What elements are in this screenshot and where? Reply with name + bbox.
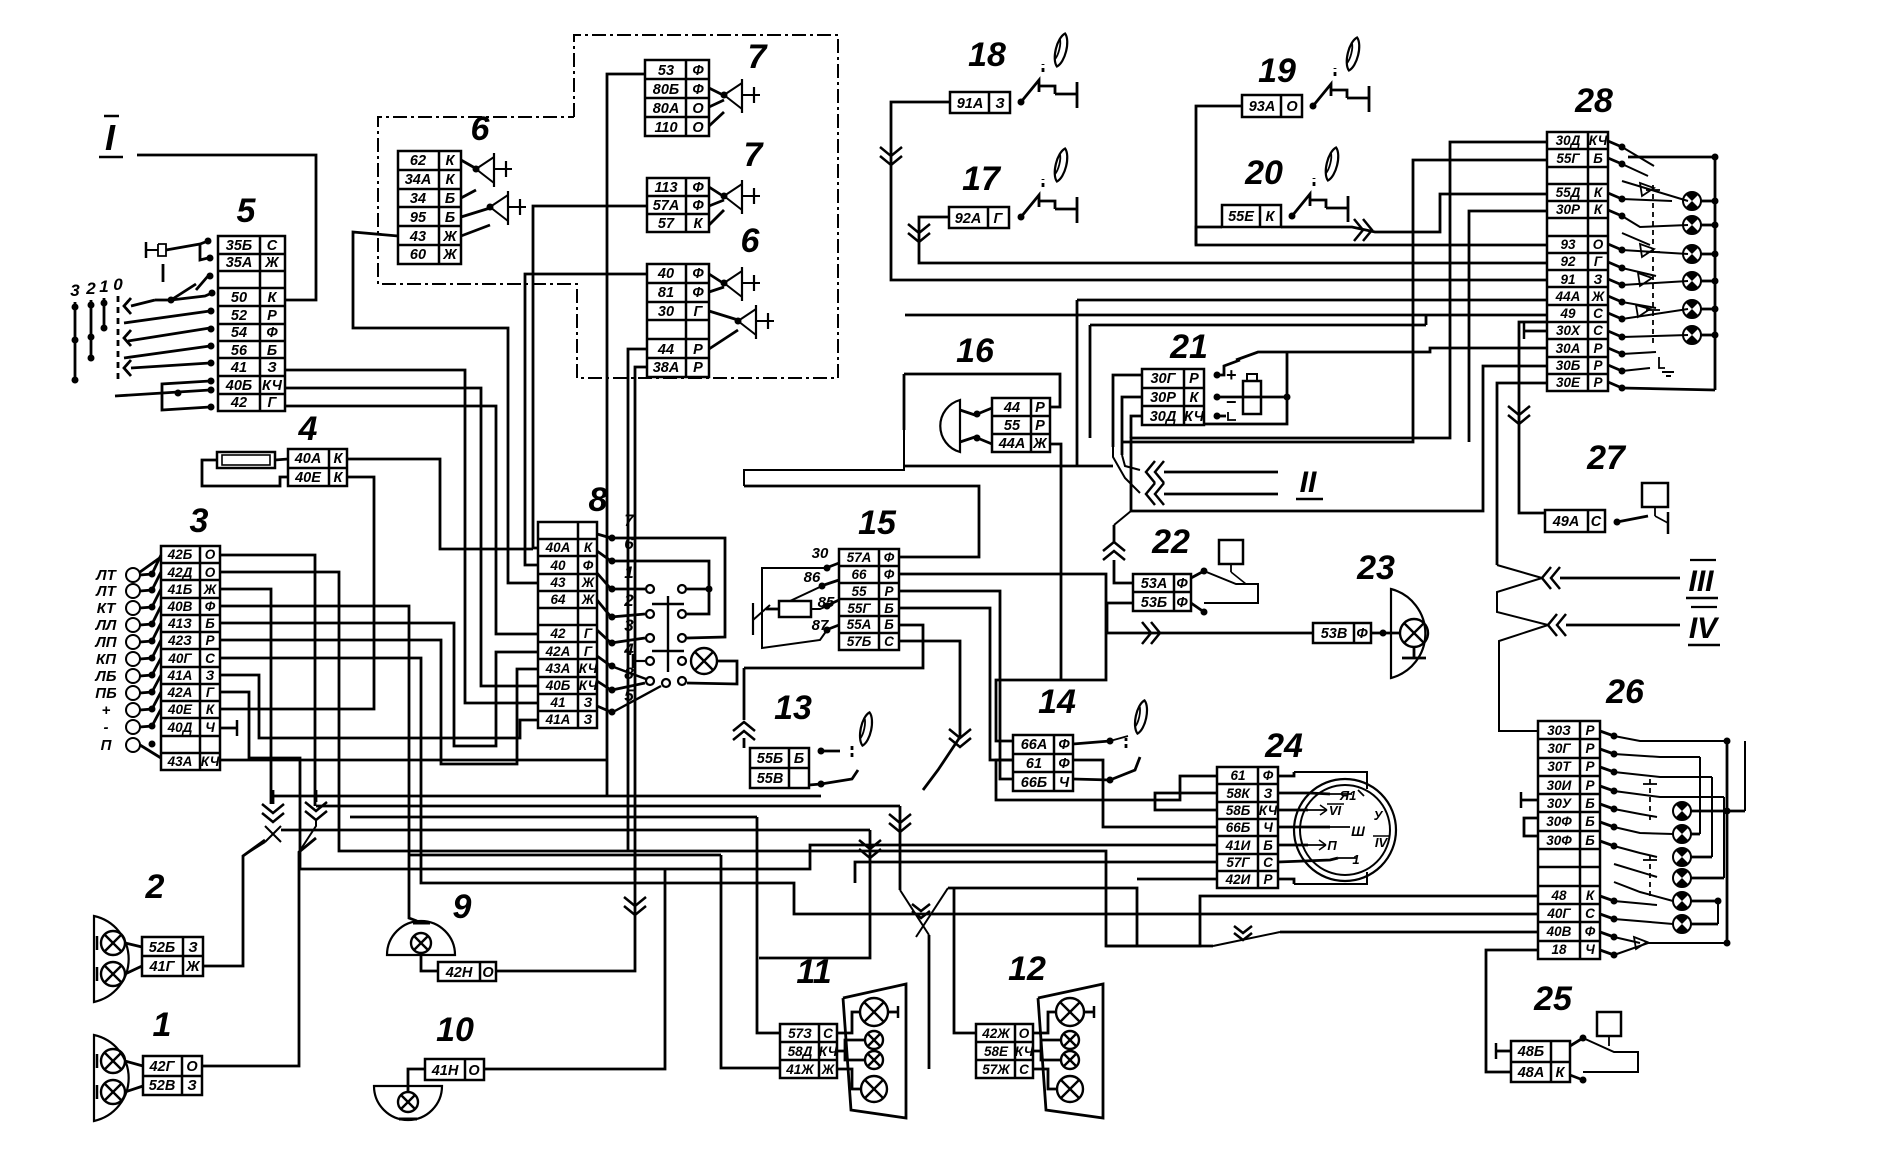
svg-text:З: З: [187, 1078, 196, 1094]
svg-text:91А: 91А: [957, 96, 984, 112]
svg-text:З: З: [584, 695, 593, 710]
svg-text:ЛТ: ЛТ: [95, 583, 117, 600]
svg-text:40А: 40А: [545, 540, 571, 555]
svg-text:86: 86: [804, 569, 821, 586]
svg-text:30: 30: [658, 304, 674, 320]
switch item 22: [1191, 540, 1258, 616]
svg-text:41: 41: [549, 695, 565, 710]
svg-text:П: П: [101, 737, 113, 754]
svg-text:К: К: [1556, 1065, 1566, 1081]
switch to rows empty/50 of block 5: [155, 273, 216, 304]
svg-text:93А: 93А: [1249, 99, 1276, 115]
svg-text:Г: Г: [584, 644, 593, 659]
wires 24 table to round connector: [1278, 772, 1294, 776]
svg-text:50: 50: [231, 290, 247, 306]
lamp cluster item 12: [1033, 984, 1103, 1118]
svg-text:Ж: Ж: [1032, 436, 1048, 452]
svg-text:+: +: [1226, 365, 1237, 385]
svg-text:КЧ: КЧ: [201, 754, 220, 769]
svg-text:57А: 57А: [653, 198, 680, 214]
svg-text:Б: Б: [445, 191, 455, 207]
block 21 outer enclosure: [1425, 315, 1428, 325]
svg-text:Ж: Ж: [203, 582, 218, 597]
wire 42Ж of block 12 left riser: [954, 888, 976, 1033]
svg-text:55Б: 55Б: [757, 751, 783, 767]
connector block 6 lower: [647, 264, 709, 377]
svg-text:Б: Б: [1585, 833, 1595, 848]
svg-text:61: 61: [1026, 756, 1042, 772]
wire 42Д of block3 long run: [220, 572, 1137, 946]
svg-text:У: У: [1374, 808, 1384, 823]
connector block 7 upper: [645, 60, 709, 136]
svg-text:56: 56: [231, 343, 248, 359]
connector block 7 lower: [647, 178, 709, 232]
svg-text:41А: 41А: [167, 668, 193, 683]
dome lamp item 10: [374, 1069, 442, 1120]
svg-text:Б: Б: [1585, 796, 1595, 811]
svg-text:30Ф: 30Ф: [1546, 814, 1572, 829]
block 8 indicator lamp: [691, 648, 717, 674]
svg-text:Б: Б: [1593, 151, 1603, 166]
svg-text:30Г: 30Г: [1150, 371, 1176, 387]
wire 18Ч of 26 down to 48А of 25: [1486, 950, 1538, 1072]
svg-text:30Д: 30Д: [1556, 133, 1581, 148]
svg-text:44: 44: [1003, 400, 1020, 416]
svg-text:110: 110: [654, 120, 677, 136]
transistors of block 7 upper: [709, 79, 760, 126]
svg-text:Ф: Ф: [692, 63, 704, 79]
svg-text:55: 55: [1004, 418, 1021, 434]
wire 53А of 22 up chevron: [1114, 560, 1133, 583]
connector block 6 (flasher relay): [398, 151, 461, 264]
svg-text:Ш: Ш: [1351, 823, 1365, 839]
wire 55Г of 15 down to 14: [899, 608, 1013, 760]
svg-text:1: 1: [99, 277, 108, 296]
svg-text:48А: 48А: [1517, 1065, 1545, 1081]
svg-text:58Б: 58Б: [1226, 803, 1251, 818]
svg-text:53В: 53В: [1321, 626, 1348, 642]
tag 53В item 23: [1313, 623, 1371, 643]
wire block5 42 to block8 row 42: [285, 406, 538, 634]
connector block 4 (fuse): [288, 449, 347, 486]
svg-text:9: 9: [453, 888, 472, 926]
switch to rows 35Б/35А of block 5: [146, 238, 214, 283]
svg-text:12: 12: [1008, 950, 1046, 988]
block 8 pin stubs and numbers: [597, 511, 635, 716]
wire 40Г of block3 run to 26 row 40Г: [220, 658, 1538, 914]
wire loop item 16 top: [904, 374, 1060, 407]
svg-text:80Б: 80Б: [653, 82, 679, 98]
wire 30Б of 28 riser: [1131, 366, 1547, 511]
svg-text:Р: Р: [267, 308, 277, 324]
connector block 22: [1133, 574, 1191, 611]
svg-text:ЛБ: ЛБ: [95, 668, 117, 685]
round connector item 24: [1294, 772, 1396, 884]
svg-text:5: 5: [237, 192, 257, 230]
svg-text:Р: Р: [1585, 723, 1595, 738]
svg-text:18: 18: [968, 36, 1006, 74]
svg-text:Б: Б: [884, 617, 894, 632]
svg-text:С: С: [1585, 906, 1595, 921]
svg-text:−: −: [1226, 392, 1237, 412]
wire 30Г of 21 left loop: [1113, 375, 1142, 447]
svg-text:40А: 40А: [294, 451, 322, 467]
wire 61 of 14 to 24: [996, 760, 1217, 800]
connector block 1 tag: [143, 1056, 202, 1095]
svg-text:IV: IV: [1375, 835, 1389, 850]
svg-text:Ф: Ф: [692, 266, 704, 282]
svg-text:II: II: [1300, 466, 1317, 499]
svg-text:55Г: 55Г: [847, 601, 871, 616]
wire 49 long run to 28: [905, 314, 1547, 317]
svg-text:ПБ: ПБ: [95, 685, 117, 702]
svg-text:40: 40: [549, 558, 566, 573]
connector block 13: [750, 748, 809, 788]
svg-text:З: З: [206, 668, 215, 683]
connector block 15 (relay): [839, 549, 899, 650]
switch item 27: [1614, 483, 1669, 534]
svg-text:41Г: 41Г: [148, 959, 175, 975]
svg-text:42Н: 42Н: [445, 965, 473, 981]
svg-text:Г: Г: [994, 211, 1004, 227]
wire 91А item18 to 91 of 28: [891, 102, 1547, 280]
battery symbol item 21: [1204, 352, 1291, 424]
svg-text:Р: Р: [205, 633, 215, 648]
svg-text:1: 1: [1352, 852, 1359, 867]
svg-text:92А: 92А: [955, 211, 982, 227]
block 26 indicator lamps: [1673, 802, 1691, 820]
svg-text:Р: Р: [1585, 741, 1595, 756]
svg-text:КЧ: КЧ: [1589, 133, 1608, 148]
svg-text:Ч: Ч: [205, 720, 215, 735]
svg-text:О: О: [1019, 1026, 1030, 1041]
svg-text:40Б: 40Б: [225, 378, 252, 394]
svg-text:24: 24: [1264, 727, 1303, 765]
svg-text:41А: 41А: [545, 712, 571, 727]
svg-text:91: 91: [1560, 272, 1575, 287]
svg-text:Г: Г: [268, 395, 278, 411]
svg-text:III: III: [1688, 565, 1714, 598]
relay 15 coil and contacts: [753, 545, 839, 648]
svg-text:34А: 34А: [405, 172, 432, 188]
svg-text:К: К: [1266, 209, 1276, 225]
svg-text:О: О: [468, 1063, 480, 1079]
switch item 17: [1018, 214, 1025, 221]
svg-text:О: О: [205, 565, 216, 580]
wire item 2 to riser: [203, 840, 265, 966]
crossover junction left: [243, 790, 284, 856]
wire 43 of 6a to block8 row 43: [353, 232, 538, 583]
svg-text:64: 64: [550, 592, 566, 607]
svg-text:23: 23: [1356, 549, 1395, 587]
wire 42А of block3: [220, 692, 300, 869]
svg-text:26: 26: [1605, 673, 1645, 711]
staircase from junctions to right: [273, 795, 821, 798]
svg-text:43А: 43А: [167, 754, 193, 769]
wire block5 41 to block8 row 41: [285, 370, 538, 703]
svg-text:44А: 44А: [1555, 289, 1581, 304]
connector block 14: [1013, 735, 1073, 791]
IV twisted junction: [1497, 600, 1680, 731]
svg-text:З: З: [267, 360, 276, 376]
svg-text:КЧ: КЧ: [1259, 803, 1278, 818]
fuse symbol item 4: [217, 452, 275, 468]
svg-text:40В: 40В: [1546, 924, 1572, 939]
svg-text:КЧ: КЧ: [1015, 1044, 1034, 1059]
block 26 contact stubs: [1600, 731, 1618, 959]
wire 44А to 28: [1077, 299, 1547, 302]
svg-text:Б: Б: [1585, 814, 1595, 829]
block 8 switch mechanism: [633, 585, 686, 687]
svg-text:Ф: Ф: [1176, 576, 1188, 592]
svg-text:Р: Р: [1593, 375, 1603, 390]
svg-text:Б: Б: [794, 751, 804, 767]
svg-text:17: 17: [962, 160, 1002, 198]
svg-text:34: 34: [410, 191, 426, 207]
wire 43А of block3 long bottom run: [220, 759, 607, 762]
II twisted-pair junction: [1113, 447, 1278, 505]
svg-text:С: С: [1593, 323, 1603, 338]
svg-text:КЧ: КЧ: [579, 661, 598, 676]
svg-text:Б: Б: [205, 616, 215, 631]
svg-text:Р: Р: [693, 342, 703, 358]
svg-text:Р: Р: [1263, 872, 1273, 887]
svg-text:52: 52: [231, 308, 247, 324]
svg-text:О: О: [692, 101, 704, 117]
fuse tag 93А item 19: [1242, 95, 1302, 117]
svg-text:КП: КП: [96, 651, 117, 668]
tag 41Н item 10: [425, 1059, 484, 1080]
wire 53Б of 22 to 53В of 23: [1107, 603, 1313, 633]
svg-text:К: К: [334, 451, 344, 467]
svg-text:К: К: [1190, 390, 1200, 406]
svg-text:30Д: 30Д: [1150, 409, 1177, 425]
svg-text:30З: 30З: [1547, 723, 1571, 738]
long horizontal into II junction: [904, 465, 1113, 468]
svg-text:Ф: Ф: [583, 558, 594, 573]
svg-text:Р: Р: [1593, 341, 1603, 356]
wire 66Б of 14 to 24: [1073, 760, 1217, 827]
svg-text:Р: Р: [884, 584, 894, 599]
svg-text:Г: Г: [206, 685, 215, 700]
svg-text:30Г: 30Г: [1547, 741, 1571, 756]
svg-text:30: 30: [812, 545, 829, 562]
block 8 switch loop wiring: [612, 538, 725, 638]
svg-text:1: 1: [153, 1006, 172, 1044]
svg-text:48: 48: [1550, 888, 1567, 903]
svg-text:IV: IV: [1689, 612, 1720, 645]
svg-text:25: 25: [1533, 980, 1573, 1018]
svg-text:Ф: Ф: [884, 567, 895, 582]
svg-text:42Д: 42Д: [167, 565, 193, 580]
svg-text:Ч: Ч: [1059, 775, 1070, 791]
connector block 8 (light switch): [538, 522, 598, 728]
switch item 13: [809, 711, 875, 787]
svg-text:40Д: 40Д: [167, 720, 193, 735]
riser to item 11 row 57З: [757, 817, 780, 1033]
svg-text:КЧ: КЧ: [819, 1044, 838, 1059]
svg-text:30Е: 30Е: [1556, 375, 1581, 390]
svg-text:30Б: 30Б: [1556, 358, 1581, 373]
wire item20 left down: [1196, 227, 1222, 245]
svg-text:16: 16: [956, 332, 995, 370]
svg-text:Р: Р: [1035, 418, 1045, 434]
svg-text:Р: Р: [1593, 358, 1603, 373]
svg-text:Ф: Ф: [205, 599, 216, 614]
svg-text:18: 18: [1551, 942, 1567, 957]
svg-text:55: 55: [851, 584, 867, 599]
svg-text:З: З: [584, 712, 593, 727]
svg-text:Б: Б: [1263, 838, 1273, 853]
svg-text:Ф: Ф: [692, 285, 704, 301]
switch item 20: [1289, 213, 1296, 220]
wire 55 of 15 down to 14: [899, 591, 1013, 779]
svg-text:53Б: 53Б: [1141, 595, 1167, 611]
svg-text:I: I: [105, 117, 116, 158]
fog lamp item 23: [1371, 589, 1428, 678]
riser 44А of 16 down to 14: [1060, 466, 1063, 680]
svg-text:6: 6: [741, 222, 761, 260]
svg-text:40Е: 40Е: [294, 470, 322, 486]
svg-text:Я1: Я1: [1339, 788, 1357, 803]
block 28 lamp rail: [1622, 154, 1719, 391]
transistors of block 6 upper: [461, 153, 526, 236]
wire 30Р of 21 left loop: [1122, 397, 1142, 455]
svg-text:2: 2: [85, 279, 96, 298]
svg-text:З: З: [188, 940, 197, 956]
wire block5 40Б to block8 row 40Б: [285, 388, 538, 686]
svg-text:7: 7: [748, 38, 769, 76]
block 28 switch arms and diodes: [1622, 147, 1688, 376]
wire 55Г of 28 run: [1122, 160, 1547, 442]
svg-text:Ж: Ж: [442, 247, 458, 263]
svg-text:44А: 44А: [998, 436, 1026, 452]
svg-text:С: С: [1263, 855, 1273, 870]
svg-text:Ж: Ж: [1591, 289, 1606, 304]
svg-text:Ж: Ж: [581, 575, 596, 590]
dome lamp item 9: [387, 921, 455, 971]
transistors of block 6 lower: [709, 267, 774, 349]
svg-text:2: 2: [145, 868, 165, 906]
switch item 18: [1018, 99, 1025, 106]
wire I to block 5 row 50: [137, 155, 316, 300]
wire 42З of block3 weave to block8 43А: [220, 640, 538, 764]
svg-text:Р: Р: [693, 360, 703, 376]
svg-text:43: 43: [409, 229, 426, 245]
svg-text:Б: Б: [267, 343, 277, 359]
wires from ignition contacts to rows 52 54 56: [131, 300, 155, 306]
wire 40 of 6b to block8 row 40: [525, 274, 647, 565]
wire 30Е of 28 riser: [1497, 383, 1547, 565]
svg-text:КТ: КТ: [97, 600, 117, 617]
wire 44 of 6b riser down: [628, 349, 647, 851]
svg-text:62: 62: [410, 153, 426, 169]
connector block 26: [1538, 721, 1600, 959]
lamp cluster item 11: [837, 984, 906, 1118]
svg-text:Б: Б: [884, 601, 894, 616]
svg-text:66: 66: [851, 567, 867, 582]
switch item 19: [1310, 103, 1317, 110]
svg-text:7: 7: [744, 136, 765, 174]
wire 58К of 24 long left: [1155, 793, 1217, 810]
svg-text:ЛЛ: ЛЛ: [95, 617, 117, 634]
svg-text:42З: 42З: [167, 633, 192, 648]
svg-text:93: 93: [1560, 237, 1576, 252]
svg-text:57З: 57З: [788, 1026, 812, 1041]
svg-text:С: С: [884, 634, 894, 649]
svg-text:К: К: [446, 153, 456, 169]
wire 55А of 15 down: [744, 625, 923, 668]
svg-text:+: +: [102, 702, 111, 719]
svg-text:ЛП: ЛП: [94, 634, 117, 651]
svg-text:З: З: [1264, 786, 1273, 801]
svg-text:43: 43: [549, 575, 566, 590]
pigtail wires into block 3 rows: [140, 555, 161, 758]
svg-text:40В: 40В: [167, 599, 193, 614]
connector block 28: [1547, 132, 1608, 391]
svg-text:40Г: 40Г: [1546, 906, 1571, 921]
svg-text:35А: 35А: [226, 255, 253, 271]
svg-text:Р: Р: [1189, 371, 1199, 387]
svg-text:Г: Г: [694, 304, 704, 320]
svg-text:Ф: Ф: [1585, 924, 1596, 939]
wire item 1 to riser: [202, 838, 316, 1066]
svg-text:К: К: [694, 216, 704, 232]
svg-text:28: 28: [1574, 82, 1613, 120]
svg-text:41Ж: 41Ж: [785, 1062, 815, 1077]
svg-text:42А: 42А: [167, 685, 193, 700]
svg-text:Ф: Ф: [692, 198, 704, 214]
svg-text:49А: 49А: [1552, 514, 1580, 530]
svg-text:30Х: 30Х: [1556, 323, 1581, 338]
svg-text:43А: 43А: [545, 661, 571, 676]
svg-text:41: 41: [230, 360, 247, 376]
connector block 16 (horn): [992, 398, 1050, 452]
wire 57А of 15 loop up: [744, 486, 979, 557]
svg-text:55Д: 55Д: [1556, 185, 1581, 200]
svg-text:41И: 41И: [1225, 838, 1251, 853]
svg-text:КЧ: КЧ: [1184, 409, 1205, 425]
svg-text:19: 19: [1258, 52, 1296, 90]
svg-text:КЧ: КЧ: [579, 678, 598, 693]
block 26 switch arms: [1614, 736, 1731, 955]
svg-text:Г: Г: [1594, 254, 1603, 269]
svg-text:Ч: Ч: [1585, 942, 1595, 957]
svg-text:Ф: Ф: [884, 550, 895, 565]
svg-text:41З: 41З: [167, 616, 192, 631]
svg-text:66Б: 66Б: [1021, 775, 1047, 791]
wire 53 row of 7a to long left riser: [607, 74, 645, 796]
connector block 2 tag: [142, 937, 203, 976]
svg-text:42И: 42И: [1225, 872, 1251, 887]
wire 44А of 16 to the right: [1050, 444, 1061, 466]
wire 30Д of 21 bottom loop: [1131, 416, 1142, 438]
svg-text:95: 95: [410, 210, 427, 226]
svg-text:3: 3: [190, 502, 209, 540]
svg-text:Ф: Ф: [692, 180, 704, 196]
ignition switch contacts 3 2 1 0: [70, 275, 131, 384]
riser below 15 to item 13 area: [743, 668, 746, 720]
jumper rows 41-42 left of block 5: [162, 381, 210, 410]
svg-text:113: 113: [654, 180, 677, 196]
horn symbol item 16: [940, 400, 992, 452]
svg-text:41Б: 41Б: [167, 582, 193, 597]
svg-text:30А: 30А: [1556, 341, 1581, 356]
svg-text:58Д: 58Д: [788, 1044, 813, 1059]
svg-text:С: С: [1591, 514, 1602, 530]
svg-text:О: О: [186, 1059, 198, 1075]
svg-text:27: 27: [1586, 439, 1627, 477]
